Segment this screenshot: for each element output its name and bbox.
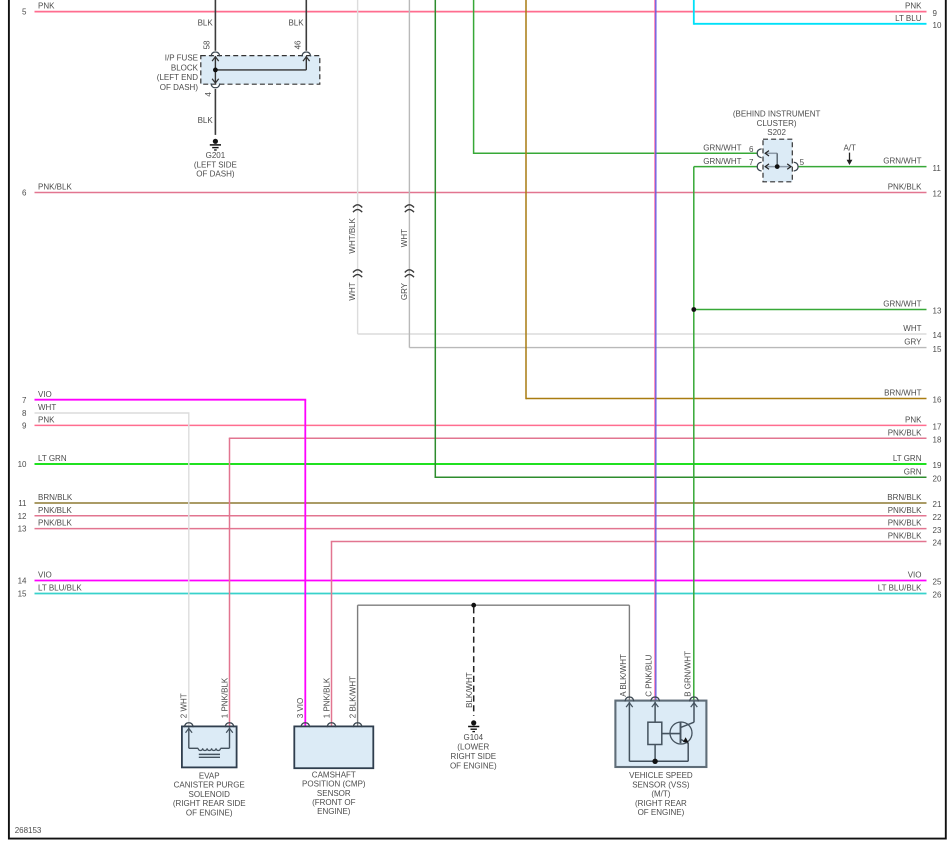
svg-text:12: 12 (933, 190, 942, 199)
svg-text:14: 14 (18, 577, 27, 586)
svg-text:GRN/WHT: GRN/WHT (883, 157, 921, 166)
svg-text:WHT: WHT (38, 403, 56, 412)
svg-text:58: 58 (203, 40, 212, 49)
svg-text:5: 5 (800, 158, 805, 167)
svg-text:LT BLU/BLK: LT BLU/BLK (38, 584, 82, 593)
svg-text:ENGINE): ENGINE) (317, 807, 351, 816)
svg-text:(FRONT OF: (FRONT OF (312, 798, 356, 807)
svg-text:6: 6 (22, 189, 27, 198)
svg-text:15: 15 (18, 590, 27, 599)
svg-text:4: 4 (204, 92, 213, 97)
svg-text:S202: S202 (767, 128, 786, 137)
svg-text:9: 9 (22, 422, 27, 431)
svg-text:EVAP: EVAP (199, 772, 220, 781)
svg-text:GRN/WHT: GRN/WHT (883, 300, 921, 309)
svg-text:22: 22 (933, 513, 942, 522)
svg-text:(LEFT END: (LEFT END (157, 73, 198, 82)
svg-text:BLOCK: BLOCK (171, 63, 199, 72)
svg-text:PNK: PNK (38, 416, 55, 425)
svg-text:VEHICLE SPEED: VEHICLE SPEED (629, 771, 693, 780)
svg-text:CLUSTER): CLUSTER) (757, 119, 797, 128)
svg-text:23: 23 (933, 526, 942, 535)
svg-text:1 PNK/BLK: 1 PNK/BLK (322, 677, 331, 718)
svg-text:A BLK/WHT: A BLK/WHT (619, 654, 628, 697)
svg-text:OF DASH): OF DASH) (196, 170, 235, 179)
svg-text:OF DASH): OF DASH) (160, 83, 199, 92)
svg-text:(RIGHT REAR: (RIGHT REAR (635, 799, 687, 808)
svg-text:VIO: VIO (908, 571, 922, 580)
svg-text:WHT: WHT (348, 282, 357, 300)
svg-text:LT BLU: LT BLU (895, 14, 922, 23)
svg-text:21: 21 (933, 500, 942, 509)
svg-text:17: 17 (933, 423, 942, 432)
svg-text:(RIGHT REAR SIDE: (RIGHT REAR SIDE (173, 799, 246, 808)
svg-text:12: 12 (18, 512, 27, 521)
svg-text:6: 6 (749, 145, 754, 154)
svg-text:BLK: BLK (198, 116, 214, 125)
svg-text:GRN: GRN (904, 467, 922, 476)
svg-text:PNK/BLK: PNK/BLK (38, 183, 72, 192)
svg-text:BRN/WHT: BRN/WHT (884, 389, 921, 398)
svg-text:WHT: WHT (400, 229, 409, 247)
svg-text:RIGHT SIDE: RIGHT SIDE (450, 752, 496, 761)
svg-text:11: 11 (18, 499, 27, 508)
svg-text:11: 11 (933, 164, 942, 173)
svg-text:SENSOR (VSS): SENSOR (VSS) (632, 780, 690, 789)
svg-text:SOLENOID: SOLENOID (189, 790, 231, 799)
svg-text:(LOWER: (LOWER (457, 743, 489, 752)
svg-text:3 VIO: 3 VIO (296, 698, 305, 718)
svg-text:PNK/BLK: PNK/BLK (888, 519, 922, 528)
svg-text:B GRN/WHT: B GRN/WHT (683, 651, 692, 697)
svg-text:20: 20 (933, 474, 942, 483)
svg-text:A/T: A/T (843, 143, 856, 152)
svg-text:PNK/BLK: PNK/BLK (888, 532, 922, 541)
svg-text:13: 13 (18, 525, 27, 534)
svg-text:LT GRN: LT GRN (38, 454, 67, 463)
svg-text:(M/T): (M/T) (651, 790, 670, 799)
svg-text:268153: 268153 (15, 826, 42, 835)
svg-text:10: 10 (18, 460, 27, 469)
svg-text:PNK: PNK (905, 416, 922, 425)
svg-text:19: 19 (933, 461, 942, 470)
svg-text:46: 46 (294, 40, 303, 49)
svg-text:BLK: BLK (288, 19, 304, 28)
svg-text:GRN/WHT: GRN/WHT (703, 144, 741, 153)
svg-text:VIO: VIO (38, 390, 52, 399)
svg-text:PNK/BLK: PNK/BLK (38, 519, 72, 528)
svg-text:I/P FUSE: I/P FUSE (165, 54, 198, 63)
svg-text:PNK/BLK: PNK/BLK (888, 428, 922, 437)
svg-text:PNK: PNK (38, 2, 55, 11)
svg-text:CANISTER PURGE: CANISTER PURGE (174, 781, 245, 790)
svg-text:WHT: WHT (903, 324, 921, 333)
svg-text:18: 18 (933, 435, 942, 444)
svg-text:PNK/BLK: PNK/BLK (888, 506, 922, 515)
svg-text:BLK/WHT: BLK/WHT (465, 672, 474, 708)
svg-text:2 WHT: 2 WHT (180, 693, 189, 718)
svg-text:(BEHIND INSTRUMENT: (BEHIND INSTRUMENT (733, 110, 821, 119)
svg-text:10: 10 (933, 21, 942, 30)
svg-text:25: 25 (933, 578, 942, 587)
svg-text:BRN/BLK: BRN/BLK (38, 493, 73, 502)
svg-text:POSITION (CMP): POSITION (CMP) (302, 780, 366, 789)
svg-text:C PNK/BLU: C PNK/BLU (645, 654, 654, 696)
svg-text:BRN/BLK: BRN/BLK (887, 493, 922, 502)
svg-text:15: 15 (933, 345, 942, 354)
svg-text:PNK/BLK: PNK/BLK (38, 506, 72, 515)
svg-text:BLK: BLK (198, 19, 214, 28)
svg-text:PNK: PNK (905, 2, 922, 11)
svg-text:OF ENGINE): OF ENGINE) (186, 808, 233, 817)
svg-text:SENSOR: SENSOR (317, 789, 351, 798)
svg-text:G104: G104 (464, 733, 484, 742)
svg-text:CAMSHAFT: CAMSHAFT (312, 770, 356, 779)
svg-text:OF ENGINE): OF ENGINE) (450, 762, 497, 771)
svg-text:LT GRN: LT GRN (893, 454, 922, 463)
svg-text:16: 16 (933, 396, 942, 405)
svg-text:2 BLK/WHT: 2 BLK/WHT (348, 676, 357, 718)
svg-text:GRY: GRY (904, 338, 922, 347)
svg-text:OF ENGINE): OF ENGINE) (638, 808, 685, 817)
svg-text:26: 26 (933, 591, 942, 600)
svg-text:24: 24 (933, 539, 942, 548)
svg-text:WHT/BLK: WHT/BLK (348, 217, 357, 253)
svg-text:LT BLU/BLK: LT BLU/BLK (878, 584, 922, 593)
svg-text:14: 14 (933, 331, 942, 340)
svg-text:7: 7 (749, 158, 754, 167)
svg-text:1 PNK/BLK: 1 PNK/BLK (220, 677, 229, 718)
svg-text:(LEFT SIDE: (LEFT SIDE (194, 160, 237, 169)
svg-text:VIO: VIO (38, 571, 52, 580)
svg-text:13: 13 (933, 307, 942, 316)
svg-text:GRY: GRY (400, 282, 409, 300)
svg-text:7: 7 (22, 396, 27, 405)
svg-text:5: 5 (22, 8, 27, 17)
svg-text:GRN/WHT: GRN/WHT (703, 157, 741, 166)
svg-text:G201: G201 (206, 151, 226, 160)
svg-text:PNK/BLK: PNK/BLK (888, 183, 922, 192)
svg-text:9: 9 (933, 9, 938, 18)
svg-text:8: 8 (22, 409, 27, 418)
